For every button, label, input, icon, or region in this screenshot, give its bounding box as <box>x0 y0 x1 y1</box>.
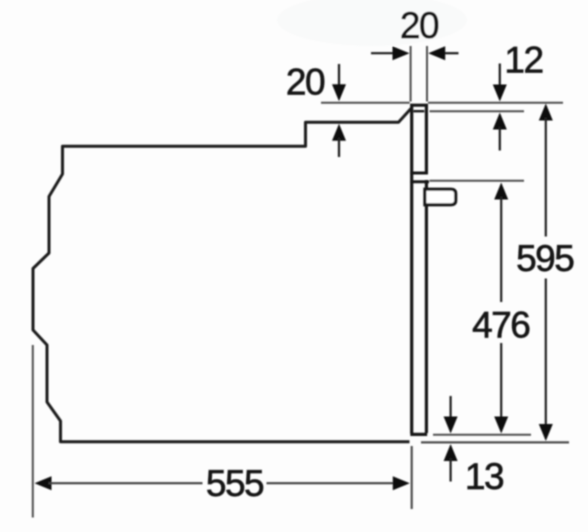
extension line 555 right <box>411 446 413 509</box>
dimension 12: upper arrow (down) <box>493 64 507 102</box>
dimension 555: line left segment with left arrow <box>35 476 203 490</box>
extension line door left above <box>410 46 412 102</box>
dimension 13: upper arrow (down) <box>444 396 458 434</box>
dimension 476: line lower segment with down arrow <box>494 343 508 434</box>
reference line 476 bottom <box>433 434 531 436</box>
reference line 12 lower <box>430 110 525 112</box>
dimension 595: line upper segment with up arrow <box>539 104 553 237</box>
door mounting bracket <box>425 189 456 205</box>
reference line niche bottom <box>421 441 569 443</box>
dimension 12: lower arrow (up) <box>493 113 507 151</box>
dimension 20 left: upper arrow (down) <box>332 64 346 101</box>
reference line 476 top <box>430 180 525 182</box>
reference line top niche (left of door) <box>321 102 410 104</box>
oven door front panel <box>410 105 429 434</box>
svg-text:595: 595 <box>516 238 574 279</box>
svg-text:20: 20 <box>400 5 439 46</box>
dimension 476: line upper segment with up arrow <box>494 183 508 303</box>
faint background smudge artifact <box>277 0 467 46</box>
dimension 20 top: left arrow <box>371 46 410 60</box>
svg-text:476: 476 <box>472 305 529 346</box>
dimension 13: lower arrow (up) <box>444 444 458 482</box>
extension line 555 left <box>32 345 34 518</box>
svg-text:13: 13 <box>465 456 503 497</box>
dimension 555: line right segment with right arrow <box>267 476 410 490</box>
dimension 20 left: lower arrow (up) <box>332 124 346 157</box>
svg-text:20: 20 <box>286 62 325 103</box>
svg-text:12: 12 <box>504 40 542 81</box>
dimension 595: line lower segment with down arrow <box>539 279 553 442</box>
extension line door right above <box>426 46 428 102</box>
svg-text:555: 555 <box>206 463 264 504</box>
reference line top niche (right of door) <box>428 102 563 104</box>
dimension 20 top: right arrow <box>428 46 458 60</box>
oven body outline <box>33 109 411 442</box>
